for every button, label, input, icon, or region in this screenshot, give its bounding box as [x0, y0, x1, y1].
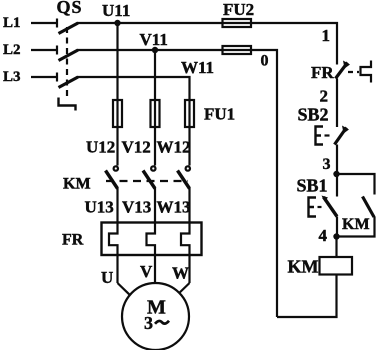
button SB2 blade arrowhead: [342, 126, 349, 134]
node U11 junction dot: [114, 20, 120, 26]
contactor KM auxiliary contact blade: [363, 197, 375, 218]
svg-text:L2: L2: [3, 42, 21, 58]
contactor KM main contact W blade: [178, 171, 190, 189]
svg-text:V: V: [140, 262, 153, 281]
relay FR NC contact blade arrowhead: [343, 61, 350, 69]
contactor KM main contact W terminal: [186, 166, 190, 170]
node 3 junction dot: [333, 171, 339, 177]
wire V phase vertical upper: [154, 50, 156, 100]
label ~ (3-phase tilde): [155, 321, 169, 324]
wire U11 row (y=23) and right rail corner: [77, 23, 337, 65]
wire V11 row (y=50) and left control rail down: [77, 50, 277, 317]
wire W phase into KM contact: [188, 127, 190, 166]
wire W phase KM to FR heater with jog: [181, 188, 190, 283]
node V11 junction dot: [152, 47, 158, 53]
fuse FU1 phase V: [151, 100, 160, 127]
relay FR contact dashed link: [348, 71, 359, 73]
switch QS pole 1 blade: [59, 23, 79, 34]
button SB2 dashed link: [325, 134, 332, 136]
button SB1 NO blade: [324, 197, 338, 217]
switch QS mechanical link (dashed): [66, 27, 68, 99]
wire W11 row (y=77) with corner down to W phase: [77, 77, 190, 100]
button SB2 actuator (E): [316, 127, 324, 145]
svg-text:W11: W11: [181, 58, 214, 77]
svg-text:L3: L3: [3, 69, 21, 85]
wire V phase into KM contact: [154, 127, 156, 166]
svg-text:SB1: SB1: [297, 176, 328, 196]
switch QS pole 3 blade: [59, 77, 79, 88]
node 4 junction dot: [333, 233, 339, 239]
fuse FU2 lower (V11 to node 0): [223, 46, 252, 54]
button SB1 dashed link: [318, 206, 323, 208]
wire motor lead W diagonal: [174, 283, 190, 298]
wire node 4 to coil: [335, 237, 337, 258]
fuse FU1 phase U: [113, 100, 122, 127]
contactor KM main contact U blade: [106, 171, 118, 189]
wire L3 lead: [31, 76, 57, 78]
button SB1 wire from node 3: [336, 174, 338, 197]
button SB2 NC blade: [335, 128, 347, 145]
svg-text:U12: U12: [86, 138, 115, 157]
wire U phase KM to FR heater with jog: [109, 188, 118, 283]
svg-text:1: 1: [322, 26, 331, 45]
switch QS pole 3 fixed contact: [56, 73, 58, 82]
svg-text:W: W: [172, 264, 189, 283]
svg-text:FR: FR: [311, 63, 334, 82]
wire L1 lead: [31, 22, 57, 24]
svg-text:L1: L1: [3, 15, 21, 31]
wire FR contact to SB2: [336, 79, 338, 128]
switch QS pole 1 fixed contact: [56, 19, 58, 28]
wire coil bottom and bottom rail: [277, 275, 337, 318]
wire U phase vertical upper: [116, 23, 118, 100]
svg-text:W13: W13: [157, 198, 191, 217]
fuse FU2 upper (U11 to node 1): [223, 19, 252, 27]
svg-text:FR: FR: [62, 232, 84, 249]
svg-text:2: 2: [320, 87, 329, 106]
svg-text:V11: V11: [140, 30, 168, 49]
svg-text:U13: U13: [85, 198, 114, 217]
contactor KM main contact V blade: [143, 171, 155, 189]
relay FR thermal element symbol: [361, 61, 372, 83]
wire U phase into KM contact: [116, 127, 118, 166]
fuse FU1 phase W: [185, 100, 194, 127]
switch QS pole 2 blade: [59, 50, 79, 61]
svg-text:FU1: FU1: [204, 105, 235, 124]
svg-text:3: 3: [144, 313, 153, 333]
wire parallel branch bottom: [337, 217, 375, 237]
wire V phase KM to FR heater with jog: [147, 188, 156, 285]
button SB1 actuator (E): [309, 198, 317, 217]
svg-text:U11: U11: [102, 1, 130, 20]
contactor KM coil: [320, 257, 353, 275]
svg-text:W12: W12: [157, 138, 191, 157]
svg-text:U: U: [101, 268, 113, 287]
button SB1 blade arrowhead: [322, 196, 329, 202]
svg-text:0: 0: [261, 53, 269, 70]
contactor KM link line (dashed): [106, 180, 188, 182]
relay FR NC contact blade: [336, 63, 348, 79]
svg-text:FU2: FU2: [223, 0, 254, 19]
wire parallel branch top: [337, 174, 375, 195]
switch QS pole 2 fixed contact: [56, 46, 58, 55]
motor M circle: [122, 283, 189, 350]
svg-text:V12: V12: [122, 138, 151, 157]
contactor KM main contact U terminal: [114, 166, 118, 170]
svg-text:KM: KM: [63, 176, 91, 193]
svg-text:V13: V13: [122, 198, 151, 217]
switch QS handle: [59, 98, 76, 111]
svg-text:KM: KM: [342, 216, 370, 233]
svg-text:3: 3: [323, 156, 331, 173]
contactor KM main contact V terminal: [151, 166, 155, 170]
wire SB1 to node 4: [336, 217, 338, 237]
wire L2 lead: [31, 49, 57, 51]
svg-text:KM: KM: [288, 257, 319, 277]
thermal relay FR heater box: [102, 223, 202, 256]
svg-text:4: 4: [319, 226, 328, 245]
wire motor lead U diagonal: [118, 283, 134, 298]
svg-text:QS: QS: [57, 0, 83, 17]
wire SB2 to node 3: [336, 145, 338, 175]
svg-text:SB2: SB2: [298, 105, 329, 125]
